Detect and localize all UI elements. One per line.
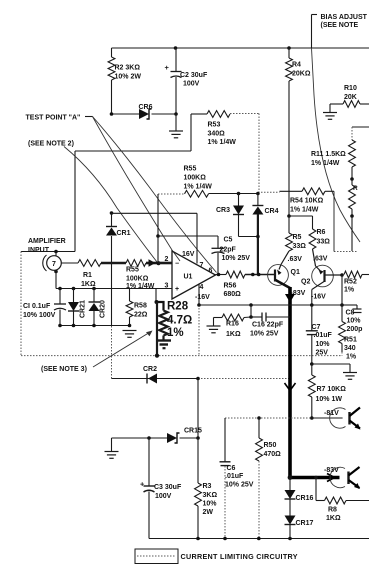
svg-text:4: 4: [200, 284, 204, 291]
wire pin7 feed: [112, 212, 198, 214]
diode CR15 (zener): [167, 433, 177, 443]
node C16 branch: [249, 303, 253, 307]
diode CR1: [110, 211, 114, 215]
legend box current limiting: [135, 549, 178, 564]
resistor chain R11 top bracket: [352, 126, 369, 128]
leader SEE NOTE 3 arrow: [93, 332, 151, 368]
wire Q1 emitter bold: [276, 280, 291, 288]
svg-text:R7 10KΩ: R7 10KΩ: [317, 386, 347, 393]
svg-text:CR3: CR3: [216, 207, 230, 214]
resistor R7: [311, 364, 313, 375]
node R8 branch: [314, 476, 318, 480]
wire connector to C1 rail: [54, 270, 58, 274]
svg-text:R6: R6: [317, 229, 326, 236]
leader curve from BIAS ADJ: [312, 48, 361, 242]
node Q2 base at row: [310, 303, 314, 307]
capacitor C2: [175, 48, 177, 71]
svg-text:R2 3KΩ: R2 3KΩ: [115, 65, 141, 72]
svg-text:4.7Ω: 4.7Ω: [167, 315, 192, 327]
transistor -81V: [330, 408, 346, 428]
ground for R10: [329, 104, 331, 112]
svg-text:R55: R55: [184, 166, 197, 173]
svg-text:R5: R5: [293, 234, 302, 241]
wire pin4 row y305: [199, 304, 342, 306]
svg-text:680Ω: 680Ω: [224, 291, 242, 298]
ground left of CR15: [111, 438, 113, 451]
svg-text:R10: R10: [344, 85, 357, 92]
node R28 top: [155, 300, 159, 304]
svg-text:CR1: CR1: [117, 230, 131, 237]
svg-text:CR2: CR2: [143, 366, 157, 373]
wire pin4: [198, 284, 200, 306]
svg-text:10%: 10%: [203, 501, 218, 508]
capacitor C5 branch: [156, 234, 160, 238]
svg-text:R51: R51: [344, 337, 357, 344]
svg-text:20K: 20K: [344, 94, 357, 101]
wire input routing from R53 to amplifier input: [190, 114, 192, 151]
wire pin3 to R28: [155, 289, 157, 303]
resistor R28 bold: [157, 302, 164, 311]
svg-text:10% 2W: 10% 2W: [115, 74, 142, 81]
resistor R11: [349, 140, 356, 167]
node on dotted edge: [155, 354, 159, 358]
ground right of R7: [349, 364, 351, 372]
resistor R8: [315, 478, 317, 501]
resistor R5: [288, 216, 290, 233]
svg-text:7: 7: [200, 262, 204, 269]
svg-text:10%: 10%: [316, 341, 331, 348]
svg-text:CR4: CR4: [265, 208, 279, 215]
svg-text:R8: R8: [328, 507, 337, 514]
node CR17 bottom: [288, 537, 292, 541]
svg-text:100V: 100V: [183, 81, 200, 88]
wire CR15 row: [112, 437, 168, 439]
wire Q2 collector to R52 node: [325, 274, 342, 276]
svg-text:R58: R58: [134, 303, 147, 310]
node below R11: [351, 167, 353, 179]
svg-text:R56: R56: [224, 283, 237, 290]
wire CR4 bold down to Q1 base: [257, 214, 259, 275]
thick emitter rail: [288, 287, 292, 478]
thick rail elbow to -83V: [290, 476, 340, 480]
svg-text:U1: U1: [184, 274, 193, 281]
svg-text:R52: R52: [344, 279, 357, 286]
svg-text:2: 2: [165, 256, 169, 263]
diode CR3: [238, 194, 240, 206]
diode CR21: [72, 287, 76, 291]
transistor Q1: [281, 251, 289, 265]
svg-text:Q1: Q1: [291, 269, 300, 276]
svg-text:100V: 100V: [155, 493, 172, 500]
svg-text:(SEE NOTE: (SEE NOTE: [321, 22, 359, 29]
arrow on rail lower: [285, 383, 296, 391]
diode CR20: [92, 287, 96, 291]
svg-text:.01uF: .01uF: [314, 332, 333, 339]
wire top rail y48: [112, 47, 369, 49]
capacitor C8: [342, 304, 357, 306]
svg-text:CR17: CR17: [296, 520, 314, 527]
svg-text:C16 22pF: C16 22pF: [252, 322, 284, 329]
svg-text:CR16: CR16: [296, 495, 314, 502]
svg-text:22pF: 22pF: [220, 247, 237, 254]
svg-text:CI 0.1uF: CI 0.1uF: [23, 303, 51, 310]
wire feedback top: [209, 193, 259, 195]
transistor Q2: [313, 249, 316, 266]
wire R6 top: [289, 215, 313, 217]
arrow on rail upper: [285, 294, 295, 303]
svg-text:R53: R53: [208, 122, 221, 129]
svg-text:2W: 2W: [203, 509, 214, 516]
svg-text:R1: R1: [83, 272, 92, 279]
connector 7 amplifier input: [54, 250, 58, 254]
ground for R58: [123, 330, 137, 332]
resistor R3: [197, 438, 199, 483]
node R50 bottom: [257, 537, 261, 541]
svg-text:C3 30uF: C3 30uF: [154, 484, 182, 491]
node CR6 left: [110, 112, 114, 116]
bottom rail: [149, 538, 369, 540]
svg-text:-16V: -16V: [311, 294, 326, 301]
dotted lead R55fb: [158, 193, 185, 195]
svg-text:C8: C8: [346, 310, 355, 317]
resistor R55 input: [126, 260, 146, 267]
svg-text:CR6: CR6: [139, 104, 153, 111]
ground for R16: [207, 325, 221, 327]
svg-text:CR20: CR20: [100, 300, 107, 318]
diode CR2: [112, 378, 199, 380]
node CR4 top: [256, 192, 260, 196]
node top-rail/R4: [287, 46, 291, 50]
svg-text:-81V: -81V: [324, 410, 339, 417]
capacitor C6: [224, 418, 226, 462]
svg-text:470Ω: 470Ω: [264, 451, 282, 458]
svg-text:TEST POINT "A": TEST POINT "A": [26, 115, 81, 122]
wire Q2 base down: [312, 282, 324, 290]
resistor R50: [258, 418, 260, 438]
svg-text:1KΩ: 1KΩ: [326, 515, 341, 522]
svg-text:R4: R4: [292, 62, 301, 69]
resistor R56: [226, 271, 245, 278]
resistor R16: [214, 317, 223, 319]
capacitor C16: [251, 316, 262, 318]
svg-text:340Ω: 340Ω: [208, 131, 226, 138]
svg-text:1% 1/4W: 1% 1/4W: [184, 184, 213, 191]
svg-text:+: +: [165, 63, 170, 72]
svg-text:33Ω: 33Ω: [317, 239, 331, 246]
ground for C2: [175, 114, 177, 131]
svg-text:10% 1W: 10% 1W: [316, 396, 343, 403]
svg-text:+: +: [140, 480, 145, 489]
diode CR17: [285, 516, 296, 525]
resistor R2: [111, 48, 113, 57]
svg-text:R28: R28: [167, 301, 189, 313]
svg-text:(SEE NOTE 3): (SEE NOTE 3): [41, 366, 87, 373]
svg-text:R11 1.5KΩ: R11 1.5KΩ: [311, 151, 346, 158]
svg-text:10%: 10%: [347, 318, 362, 325]
wire R28 node down bold to dotted edge: [156, 302, 158, 356]
svg-text:.01uF: .01uF: [225, 473, 244, 480]
diode CR6 (zener): [112, 113, 140, 115]
dotted wire R54 area: [258, 191, 280, 193]
svg-text:10% 25V: 10% 25V: [250, 331, 279, 338]
op-amp U1: [172, 251, 216, 299]
svg-text:1% 1/4W: 1% 1/4W: [290, 207, 319, 214]
resistor R1: [61, 262, 78, 264]
svg-text:1%: 1%: [167, 327, 184, 339]
dotted wire pin4 down: [198, 305, 200, 356]
node below R12: [350, 214, 354, 218]
resistor R52: [344, 271, 362, 278]
svg-text:C6: C6: [227, 465, 236, 472]
signal arrow into pin 2: [146, 262, 159, 265]
svg-text:100KΩ: 100KΩ: [126, 276, 149, 283]
svg-text:Q2: Q2: [301, 279, 310, 286]
svg-text:BIAS ADJUST: BIAS ADJUST: [321, 14, 368, 21]
diode CR16: [285, 490, 296, 499]
wire to ground right of R7: [312, 363, 350, 365]
svg-text:1% 1/4W: 1% 1/4W: [311, 160, 340, 167]
svg-text:3KΩ: 3KΩ: [203, 492, 218, 499]
node R16/C16: [249, 315, 253, 319]
svg-text:16V: 16V: [182, 251, 195, 258]
wire R56 to Q1 base: [245, 274, 275, 276]
resistor R58: [129, 289, 131, 302]
svg-text:R50: R50: [264, 442, 277, 449]
svg-text:20KΩ: 20KΩ: [292, 71, 311, 78]
svg-text:-16V: -16V: [195, 294, 210, 301]
node CR2 right: [196, 377, 200, 381]
leader from TEST POINT A to pin2 area: [93, 117, 181, 262]
capacitor C3: [148, 438, 150, 486]
svg-text:CURRENT LIMITING CIRCUITRY: CURRENT LIMITING CIRCUITRY: [181, 552, 298, 561]
svg-text:(SEE NOTE 2): (SEE NOTE 2): [28, 141, 74, 148]
svg-text:10% 100V: 10% 100V: [23, 312, 56, 319]
wire feedback left vertical: [157, 194, 159, 263]
node CR15/R3: [196, 436, 200, 440]
node R5/R6 top: [287, 214, 291, 218]
resistor R10: [330, 103, 343, 105]
svg-text:C7: C7: [312, 324, 321, 331]
leader from SEE NOTE 2: [64, 147, 157, 263]
node R50 top: [257, 416, 261, 420]
wire R52 node down: [341, 275, 343, 305]
node R3 bottom: [196, 537, 200, 541]
svg-text:1% 1/4W: 1% 1/4W: [208, 139, 237, 146]
node C2/ground: [174, 112, 178, 116]
svg-text:.63V: .63V: [288, 256, 303, 263]
resistor R55 feedback: [185, 190, 209, 197]
node R52 column at row: [340, 303, 344, 307]
wire emitter rail to CR16: [289, 478, 291, 491]
resistor R51: [341, 305, 343, 322]
capacitor C7: [311, 305, 313, 331]
svg-text:10% 25V: 10% 25V: [225, 482, 254, 489]
svg-text:1%: 1%: [346, 354, 357, 361]
node Q2 collector/R52: [340, 273, 344, 277]
svg-text:25V: 25V: [316, 350, 329, 357]
wire R1-R55 bold: [101, 262, 126, 265]
resistor R4: [288, 48, 290, 58]
svg-text:6: 6: [209, 268, 213, 275]
svg-text:22Ω: 22Ω: [134, 312, 148, 319]
svg-text:R16: R16: [226, 321, 239, 328]
wire -81V row: [225, 417, 312, 419]
node CR3 top: [237, 192, 241, 196]
svg-text:100KΩ: 100KΩ: [184, 175, 207, 182]
label BIAS ADJ: [312, 14, 318, 16]
wire CR3 bottom to CR4: [239, 236, 258, 238]
svg-text:C2 30uF: C2 30uF: [180, 72, 208, 79]
op-amp output node: [216, 274, 227, 276]
svg-text:AMPLIFIER: AMPLIFIER: [28, 238, 66, 245]
svg-text:C5: C5: [224, 237, 233, 244]
resistor R53: [191, 113, 207, 115]
svg-text:1%: 1%: [344, 287, 355, 294]
node top-rail/C2: [174, 46, 178, 50]
node C3 top: [147, 436, 151, 440]
svg-text:R54 10KΩ: R54 10KΩ: [290, 198, 324, 205]
dotted wire CR2 to emitter rail: [198, 378, 290, 380]
leader from TEST POINT A to output: [93, 117, 217, 273]
svg-text:+: +: [175, 286, 179, 293]
capacitor C1: [58, 287, 62, 291]
svg-text:R3: R3: [203, 483, 212, 490]
resistor R54: [280, 190, 303, 192]
svg-text:200p: 200p: [347, 326, 363, 333]
node R7 bottom: [310, 416, 314, 420]
rail C1/CR21/CR20 to pin3: [56, 288, 172, 290]
rail bottom C1/CR21/CR20: [60, 325, 130, 327]
wire R54 right down: [333, 191, 335, 251]
svg-text:−: −: [175, 261, 179, 268]
wire R4 to R5/R6 node: [288, 81, 290, 216]
svg-text:CR21: CR21: [80, 300, 87, 318]
svg-text:CR15: CR15: [184, 428, 202, 435]
resistor R6: [309, 229, 316, 249]
wire R53 dotted into current-limit box: [230, 113, 259, 115]
transistor -83V: [330, 467, 345, 487]
svg-text:R55: R55: [126, 267, 139, 274]
svg-text:INPUT: INPUT: [28, 247, 50, 254]
node C7/R7: [310, 362, 314, 366]
wire CR2 node down: [197, 379, 199, 439]
svg-text:340: 340: [344, 345, 356, 352]
node CR3/CR4 bottom: [256, 235, 260, 239]
svg-text:1KΩ: 1KΩ: [226, 331, 241, 338]
svg-text:33Ω: 33Ω: [293, 243, 307, 250]
node pin4: [197, 303, 201, 307]
ground for R28 bold: [157, 339, 172, 341]
svg-text:10% 25V: 10% 25V: [222, 255, 251, 262]
svg-text:7: 7: [52, 261, 56, 268]
dotted box left edge: [20, 252, 22, 357]
svg-text:3: 3: [165, 283, 169, 290]
node C6 bottom: [223, 537, 227, 541]
node pin2/R55fb: [156, 261, 160, 265]
diode CR4: [257, 194, 259, 206]
dotted box bottom edge: [21, 355, 342, 357]
